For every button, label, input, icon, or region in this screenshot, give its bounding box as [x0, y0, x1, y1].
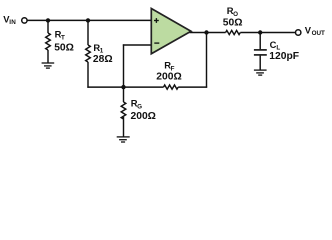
op-amp U1 triangle	[151, 9, 191, 54]
svg-text:G: G	[137, 104, 142, 111]
junction node at op-amp output/feedback	[204, 30, 208, 34]
svg-text:200Ω: 200Ω	[156, 72, 181, 83]
resistor R1 vertical leg top	[87, 20, 89, 45]
resistor RG leg top	[123, 87, 125, 102]
op-amp plus input symbol	[154, 18, 159, 23]
capacitor CL bottom lead	[259, 56, 261, 70]
ground for RT	[42, 63, 55, 68]
wire feedback vertical up to output node	[206, 33, 208, 88]
resistor RG zigzag	[121, 102, 126, 119]
resistor RO zigzag	[226, 30, 241, 34]
wire inverting input branch horizontal	[123, 44, 151, 46]
junction node at RT tap	[46, 18, 50, 22]
wire inverting input branch vertical	[123, 44, 125, 87]
resistor RT vertical leg top	[47, 20, 49, 33]
node VIN terminal	[22, 18, 27, 23]
wire lower rail left	[87, 86, 163, 88]
capacitor CL plates	[254, 50, 267, 55]
svg-text:28Ω: 28Ω	[93, 54, 113, 65]
resistor RF zigzag	[164, 85, 179, 89]
svg-text:120pF: 120pF	[269, 51, 299, 62]
wire RO to VOUT terminal	[240, 32, 295, 34]
wire R1 bottom to lower rail	[87, 62, 89, 88]
node VOUT terminal	[296, 30, 301, 35]
ground for CL	[254, 70, 267, 75]
resistor R1 zigzag	[86, 45, 91, 62]
junction node at CL tap	[258, 30, 262, 34]
svg-text:200Ω: 200Ω	[131, 111, 156, 122]
wire top rail VIN to op-amp + input	[27, 19, 151, 21]
svg-text:50Ω: 50Ω	[223, 18, 243, 29]
svg-text:T: T	[61, 34, 65, 41]
resistor RT zigzag	[46, 33, 51, 50]
ground for RG	[117, 137, 130, 142]
svg-text:OUT: OUT	[312, 30, 325, 37]
wire lower rail right	[178, 86, 207, 88]
svg-text:50Ω: 50Ω	[54, 43, 74, 54]
junction node at R1 tap	[86, 18, 90, 22]
op-amp minus input symbol	[154, 42, 159, 44]
capacitor CL top lead	[259, 33, 261, 50]
wire RG to ground	[123, 117, 125, 137]
svg-text:IN: IN	[9, 19, 16, 26]
wire RT to ground	[47, 50, 49, 63]
junction node at inverting branch on lower rail	[121, 85, 125, 89]
wire op-amp output to RO	[190, 32, 226, 34]
